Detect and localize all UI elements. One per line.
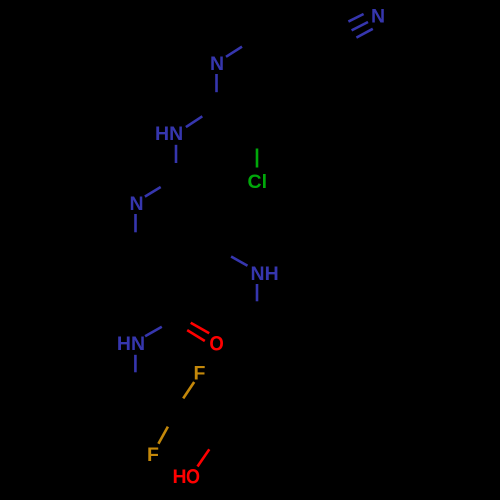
bond C#N nitrile triple line 2 (N half) (352, 22, 368, 30)
bond CF2-F1 (F half) (183, 382, 194, 398)
svg-text:H: H (172, 466, 186, 488)
bond N1-C6 ring1 (N half) (226, 47, 242, 57)
svg-text:N: N (129, 193, 143, 215)
svg-text:N: N (210, 53, 224, 75)
svg-text:Cl: Cl (248, 171, 268, 193)
bond C=O double line 2 (O half) (187, 330, 205, 341)
svg-text:NH: NH (251, 263, 279, 285)
bond amide N-C(=O) (N half) (145, 327, 162, 337)
bond C4'-NH(methylamino) (N half) (231, 257, 247, 266)
svg-text:F: F (147, 444, 159, 466)
bond N1'-C ring2 upright (N half) (145, 187, 161, 197)
svg-text:O: O (209, 332, 223, 356)
svg-text:O: O (186, 465, 200, 489)
bond NH(link)-C2 ring1 (N half) (186, 116, 202, 127)
bond C#N nitrile triple line 3 (N half) (356, 29, 372, 38)
bond C=O double line 1 (O half) (191, 323, 210, 334)
bond N1-C2 ring1 vertical (N half) (215, 74, 218, 92)
bond NH(link)-C2' ring2 vertical (N half) (175, 145, 178, 163)
bond NH-CH3 vertical (N half) (256, 284, 259, 301)
svg-text:HN: HN (155, 123, 183, 145)
bond C3-Cl (Cl half) (256, 149, 259, 168)
bond CF2-F2 (F half) (158, 427, 168, 444)
bond CH2-OH (O half) (198, 449, 210, 466)
svg-text:HN: HN (117, 333, 145, 355)
bond amide N-CH2 vertical (N half) (134, 355, 137, 373)
svg-text:F: F (194, 362, 206, 384)
bond C#N nitrile triple line 1 (N half) (348, 14, 363, 22)
bond N1'-C ring2 vertical (N half) (134, 214, 137, 232)
svg-text:N: N (371, 6, 385, 28)
